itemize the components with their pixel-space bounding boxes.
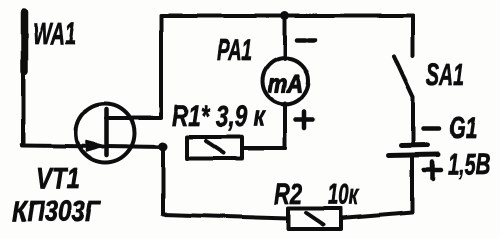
- svg-text:mA: mA: [268, 70, 303, 98]
- resistor R1: [187, 137, 242, 159]
- svg-text:R2: R2: [274, 179, 302, 211]
- wire meter top lead: [283, 16, 287, 59]
- label plus meter: [296, 111, 313, 129]
- label plus battery: [424, 162, 441, 179]
- switch SA1: [394, 16, 413, 97]
- wire battery top lead: [411, 97, 415, 143]
- svg-text:КП303Г: КП303Г: [12, 196, 101, 228]
- battery G1: [388, 145, 438, 156]
- wire gate: [22, 146, 103, 147]
- wire bottom left: [163, 215, 288, 219]
- wire R1 right: [242, 146, 285, 150]
- svg-text:R1* 3,9 к: R1* 3,9 к: [172, 100, 266, 133]
- node A junction dot: [281, 12, 290, 21]
- svg-text:G1: G1: [449, 112, 477, 145]
- wire drain riser: [159, 16, 163, 118]
- label minus battery: [423, 126, 439, 131]
- node B junction dot: [159, 142, 168, 151]
- svg-text:PA1: PA1: [217, 34, 252, 67]
- wire bottom right: [341, 212, 412, 218]
- antenna WA1: [24, 12, 25, 145]
- svg-text:1,5В: 1,5В: [448, 148, 490, 181]
- label minus meter: [297, 38, 315, 43]
- wire source riser: [161, 147, 165, 214]
- wire meter bottom lead: [283, 103, 287, 148]
- resistor R2: [288, 209, 341, 230]
- wire battery bottom riser: [410, 157, 414, 212]
- svg-text:VT1: VT1: [36, 162, 80, 195]
- svg-text:WA1: WA1: [33, 16, 76, 51]
- svg-text:10к: 10к: [328, 179, 359, 211]
- transistor VT1: [76, 104, 164, 163]
- meter PA1: [263, 58, 309, 104]
- svg-text:SA1: SA1: [426, 57, 464, 92]
- wire top: [161, 14, 413, 18]
